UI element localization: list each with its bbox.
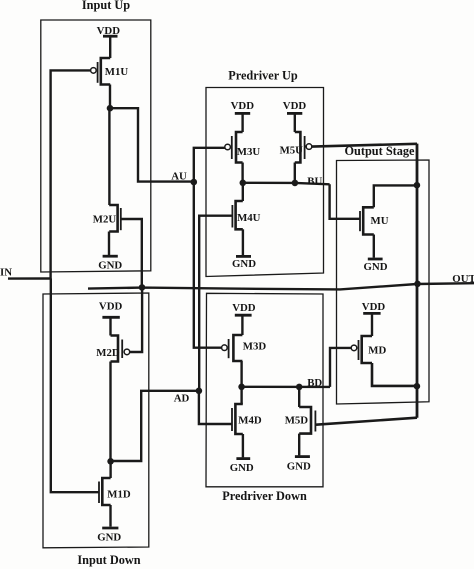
wire M4U gate to AD [199, 216, 232, 391]
wire OUT rail to M5D gate feedback [316, 418, 417, 425]
wire M1U source to drain node [109, 85, 111, 109]
svg-text:GND: GND [98, 260, 122, 272]
svg-text:M4D: M4D [238, 415, 262, 427]
junction BU left [240, 180, 247, 187]
wire MU drain to OUT rail [374, 185, 417, 207]
svg-text:Input Up: Input Up [82, 0, 130, 12]
svg-text:GND: GND [364, 261, 388, 273]
svg-text:MD: MD [368, 345, 386, 357]
wire M2D gate to OUT feedback node [130, 288, 142, 352]
ground GND (M5D) [295, 434, 310, 457]
transistor M4D (NMOS) [232, 404, 243, 434]
wire VDD to MD drain [371, 313, 373, 336]
svg-text:VDD: VDD [99, 301, 123, 313]
wire VDD to M3D drain [241, 315, 243, 335]
svg-text:VDD: VDD [232, 302, 256, 314]
svg-text:M5D: M5D [285, 415, 309, 427]
svg-text:BU: BU [307, 176, 322, 188]
wire M5U gate feedback to OUT rail [312, 144, 417, 147]
wire M2U gate to OUT feedback node [121, 219, 142, 287]
junction AD [196, 388, 203, 395]
wire BD to M4D drain [240, 387, 242, 404]
svg-text:M2D: M2D [96, 347, 120, 359]
wire drain node to M1D drain [109, 461, 111, 478]
wire VDD to M3U drain [241, 113, 243, 132]
wire OUT rail [416, 144, 419, 418]
transistor M3U (PMOS) [225, 132, 243, 163]
wire M2D source to drain node [109, 362, 111, 462]
ground GND (Output MU) [368, 235, 383, 260]
svg-text:Input Down: Input Down [77, 553, 140, 567]
junction M1U/M2U drain node [107, 105, 114, 112]
svg-text:VDD: VDD [362, 301, 386, 313]
svg-text:M2U: M2U [93, 214, 117, 226]
wire drain node to AU [110, 108, 194, 181]
svg-text:M1D: M1D [107, 489, 131, 501]
ground GND (M4D) [236, 434, 250, 459]
wire BU to M4U drain [242, 183, 244, 201]
svg-text:Output Stage: Output Stage [344, 144, 415, 158]
junction M2D/M1D drain node [107, 458, 114, 465]
power VDD (Predriver Up left) [235, 112, 250, 115]
wire M5D drain [298, 387, 300, 407]
transistor M5U (PMOS) [295, 132, 312, 163]
wire M3D source to BD [240, 361, 242, 387]
transistor M1U (PMOS) [91, 58, 111, 85]
transistor M5D (NMOS) [299, 407, 315, 434]
svg-text:IN: IN [0, 267, 12, 279]
svg-text:M5U: M5U [280, 145, 304, 157]
junction BU right [292, 180, 299, 187]
power VDD (Input Down) [102, 316, 119, 319]
wire AU to M3D gate [194, 182, 222, 348]
wire VDD to M1U drain [109, 36, 111, 58]
transistor M3D (PMOS) [222, 335, 243, 361]
wire M3U source to BU [241, 163, 243, 183]
svg-text:M3U: M3U [237, 146, 261, 158]
wire MD source to OUT rail [372, 363, 417, 386]
wire AD to M4D gate [199, 391, 232, 424]
wire AU to M3U gate [194, 148, 225, 182]
svg-text:GND: GND [97, 532, 121, 544]
block frame Output Stage [337, 160, 430, 404]
ground GND (Input Up) [103, 232, 118, 257]
svg-text:GND: GND [232, 258, 256, 270]
power VDD (Output MD) [363, 312, 380, 315]
wire BD bus [242, 386, 330, 389]
svg-text:AU: AU [171, 171, 187, 183]
junction BD at M5D drain [296, 384, 303, 391]
wire drain node to M2U drain [108, 108, 110, 205]
svg-text:OUT: OUT [452, 273, 474, 285]
wire BD to MD gate [330, 348, 351, 387]
power VDD (Predriver Up right) [287, 112, 302, 115]
wire IN to M1U gate [51, 70, 91, 278]
junction AU [191, 179, 198, 186]
junction OUT feedback node [139, 284, 146, 291]
wire VDD to M2D drain [109, 317, 111, 335]
wire IN [8, 277, 51, 280]
wire BU to MU gate [330, 184, 360, 219]
wire IN to M1D gate [51, 279, 99, 493]
wire AD to M2D/M1D drain node [111, 391, 199, 461]
transistor M4U (NMOS) [232, 201, 242, 229]
svg-text:VDD: VDD [231, 100, 255, 112]
svg-text:BD: BD [307, 377, 322, 389]
ground GND (Input Down) [102, 505, 118, 528]
power VDD (Predriver Down) [235, 314, 252, 317]
svg-text:M3D: M3D [243, 341, 267, 353]
block frame Predriver Up [206, 88, 324, 277]
transistor M1D (NMOS) [99, 478, 111, 505]
ground GND (Predriver Up) [236, 229, 251, 256]
wire BU bus [243, 183, 330, 185]
junction MU drain on OUT rail [414, 182, 421, 189]
transistor M2U (NMOS) [109, 205, 121, 232]
svg-text:M4U: M4U [237, 212, 261, 224]
svg-text:GND: GND [230, 462, 254, 474]
transistor MD (PMOS) [351, 336, 372, 363]
wire M5U source to BU [294, 163, 296, 183]
block frame Input Down [43, 293, 149, 548]
svg-text:AD: AD [174, 393, 190, 405]
svg-text:GND: GND [287, 461, 311, 473]
wire OUT line [88, 283, 474, 289]
block frame Input Up [41, 20, 151, 272]
svg-text:VDD: VDD [283, 100, 307, 112]
svg-text:MU: MU [371, 215, 389, 227]
junction OUT line on OUT rail [414, 281, 421, 288]
svg-text:M1U: M1U [105, 66, 129, 78]
svg-text:VDD: VDD [97, 25, 121, 37]
transistor M2D (PMOS) [111, 336, 130, 362]
wire VDD to M5U drain [294, 113, 296, 132]
junction MD drain on OUT rail [414, 383, 421, 390]
junction BD left [238, 384, 245, 391]
svg-text:Predriver Up: Predriver Up [228, 69, 298, 83]
transistor MU (NMOS) [360, 207, 374, 234]
svg-text:Predriver Down: Predriver Down [222, 489, 307, 503]
power VDD (Input Up) [103, 35, 118, 38]
block frame Predriver Down [206, 293, 323, 487]
